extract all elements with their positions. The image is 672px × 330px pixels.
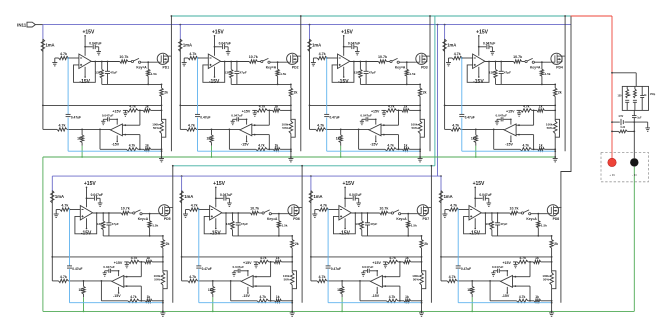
resistor R311 (1k) xyxy=(402,104,410,112)
transistor PD2 xyxy=(287,53,301,69)
svg-text:1mA: 1mA xyxy=(183,43,192,48)
svg-text:+15V: +15V xyxy=(84,181,96,187)
wire drain rail top 1 xyxy=(170,16,172,151)
svg-text:50%: 50% xyxy=(411,126,417,130)
power +15V U1A xyxy=(82,29,94,55)
svg-text:1k: 1k xyxy=(276,295,280,299)
resistor R81 (1mA) xyxy=(439,191,452,204)
svg-text:4.7k: 4.7k xyxy=(60,275,67,279)
resistor R52 (4.7k) xyxy=(60,203,70,211)
svg-text:+15V: +15V xyxy=(112,110,121,114)
svg-text:4.7k: 4.7k xyxy=(61,203,68,207)
svg-text:4.7k: 4.7k xyxy=(129,144,136,148)
svg-text:1.5k: 1.5k xyxy=(152,224,158,228)
switch J1 (Key=A) xyxy=(128,58,147,69)
transistor PD5 xyxy=(159,205,173,221)
capacitor C22 (47pF) xyxy=(234,62,246,85)
svg-text:-15V: -15V xyxy=(242,294,250,298)
resistor R64 (10.7k) xyxy=(250,207,259,215)
svg-text:1k: 1k xyxy=(207,137,211,141)
svg-text:2k: 2k xyxy=(294,91,298,95)
wire output U7B xyxy=(359,281,361,301)
node busA-R block 4 xyxy=(554,105,556,107)
wire output U6A xyxy=(222,212,251,214)
port IN1 xyxy=(17,22,43,27)
wire output red xyxy=(571,16,613,158)
wire rail block 7 xyxy=(310,191,312,281)
resistor R512 (4.7k) xyxy=(128,295,139,303)
resistor R66 (2k) xyxy=(291,236,299,257)
wire main signal bus top xyxy=(43,24,571,26)
wire bus84 block 4 xyxy=(496,84,557,86)
wire busC block 8 xyxy=(513,261,552,263)
ground input block 3 xyxy=(311,58,316,66)
wire chain2 block 8 xyxy=(551,289,553,313)
switch J8 (Key=A) xyxy=(518,210,537,221)
wire busA block 8 xyxy=(440,256,551,258)
svg-text:-15V: -15V xyxy=(112,143,120,147)
node busA-R block 5 xyxy=(162,256,164,258)
op-amp U8B xyxy=(501,276,517,288)
ground busC block 5 xyxy=(125,262,129,268)
resistor R69 (1k) xyxy=(208,281,215,297)
resistor R48 (4.7k) xyxy=(451,124,461,132)
load network box xyxy=(622,86,648,110)
svg-text:4.7k: 4.7k xyxy=(320,203,327,207)
capacitor C34 (0.47uF) xyxy=(324,114,339,119)
wire output U4B xyxy=(493,129,495,149)
svg-text:50%: 50% xyxy=(284,278,290,282)
op-amp U3A xyxy=(338,54,350,69)
wire rail block 8 xyxy=(440,191,442,281)
svg-text:Key=A: Key=A xyxy=(395,65,406,69)
capacitor C-mid (1uF) xyxy=(632,110,642,122)
ground chain block 2 xyxy=(288,159,293,162)
resistor R43 (13k) xyxy=(489,62,497,85)
wire busD block 2 xyxy=(229,148,291,150)
wire rail-blue block 6 xyxy=(181,176,183,191)
svg-text:2k: 2k xyxy=(164,91,168,95)
wire chain2 block 4 xyxy=(554,137,556,158)
wire load mid vert xyxy=(633,122,635,158)
svg-text:4.7k: 4.7k xyxy=(131,256,138,260)
svg-text:+15V: +15V xyxy=(114,261,123,265)
power -15V U6A xyxy=(210,218,221,236)
resistor R62 (4.7k) xyxy=(189,203,199,211)
op-amp U7B xyxy=(370,276,386,288)
capacitor C71 (0.047uF) xyxy=(344,193,361,206)
resistor R610 (4.7k) xyxy=(258,256,269,264)
power -15V U1A xyxy=(79,67,90,85)
node busA-R block 3 xyxy=(419,105,421,107)
wire chain block 6 xyxy=(291,257,293,262)
resistor R58 (4.7k) xyxy=(59,275,69,283)
svg-text:1mA: 1mA xyxy=(314,194,323,199)
resistor R89 (1k) xyxy=(467,281,474,297)
wire bus84 block 1 xyxy=(102,84,163,86)
wire output U3A xyxy=(350,61,379,63)
wire busB block 2 xyxy=(180,129,240,131)
wire output U1B xyxy=(99,129,101,149)
ground input block 7 xyxy=(312,210,317,218)
wire chain2 block 6 xyxy=(291,289,293,313)
resistor R24 (10.7k) xyxy=(249,55,258,63)
svg-text:1mA: 1mA xyxy=(447,43,456,48)
wire rail block 2 xyxy=(179,39,181,129)
svg-text:10.7k: 10.7k xyxy=(250,207,259,211)
svg-text:+15V: +15V xyxy=(341,29,353,35)
svg-text:50%: 50% xyxy=(413,278,419,282)
wire chain block 5 xyxy=(162,257,164,262)
power -15V U6B xyxy=(242,287,250,298)
resistor R713 (1k) xyxy=(404,295,411,303)
wire input block 1 xyxy=(55,57,79,59)
resistor R87 (100k rheostat) xyxy=(542,262,556,289)
svg-text:1k: 1k xyxy=(539,144,543,148)
op-amp U5A xyxy=(80,206,92,221)
wire output U6B xyxy=(230,281,232,301)
svg-text:50%: 50% xyxy=(547,126,553,130)
svg-text:4.7k: 4.7k xyxy=(449,275,456,279)
svg-text:1k: 1k xyxy=(405,256,409,260)
capacitor C61 (0.047uF) xyxy=(215,193,232,206)
wire bus84 block 2 xyxy=(231,84,292,86)
svg-text:10.7k: 10.7k xyxy=(121,207,130,211)
power +15V U5B xyxy=(114,261,123,276)
svg-text:4.7k: 4.7k xyxy=(452,124,459,128)
resistor R59 (1k) xyxy=(79,281,86,297)
wire feedback U3A xyxy=(332,61,355,83)
transistor PD1 xyxy=(157,53,171,69)
wire busC block 1 xyxy=(123,110,163,112)
ground chain block 7 xyxy=(419,313,424,316)
resistor R811 (1k) xyxy=(533,256,541,264)
resistor R26 (2k) xyxy=(289,84,297,105)
svg-text:PD2: PD2 xyxy=(292,66,299,70)
resistor R16 (2k) xyxy=(160,84,168,105)
transistor PD6 xyxy=(288,205,302,221)
wire blue riser xyxy=(437,25,439,177)
svg-text:4.7k: 4.7k xyxy=(522,144,529,148)
svg-text:13k: 13k xyxy=(97,222,102,226)
svg-text:4.7k: 4.7k xyxy=(519,256,526,260)
svg-text:Key=A: Key=A xyxy=(136,65,147,69)
op-amp U8A xyxy=(469,206,481,221)
svg-text:1k: 1k xyxy=(79,288,83,292)
wire net-blue block 1 xyxy=(68,57,161,151)
wire output U5A xyxy=(93,212,122,214)
power -15V U1B xyxy=(112,135,120,146)
wire busC block 6 xyxy=(254,261,294,263)
wire bus84 block 7 xyxy=(362,235,423,237)
power -15V U4A xyxy=(473,67,484,85)
svg-text:0.47uF: 0.47uF xyxy=(461,267,471,271)
svg-text:-15V: -15V xyxy=(113,294,121,298)
svg-text:0.47uF: 0.47uF xyxy=(71,115,81,119)
wire cyan riser xyxy=(434,16,436,166)
wire rail block 1 xyxy=(42,39,44,129)
wire gate block 1 xyxy=(141,61,158,63)
svg-text:4.7k: 4.7k xyxy=(319,52,326,56)
resistor R37 (100k rheostat) xyxy=(411,110,425,137)
wire ground bus bottom xyxy=(43,310,634,312)
wire row1 xyxy=(611,121,648,123)
svg-text:50%: 50% xyxy=(153,126,159,130)
resistor R611 (1k) xyxy=(274,256,282,264)
wire busA block 1 xyxy=(42,105,162,107)
wire input block 4 xyxy=(449,57,473,59)
wire gate block 7 xyxy=(401,213,418,215)
probe - (black) xyxy=(630,158,638,177)
resistor R86 (2k) xyxy=(550,236,558,257)
wire feedback U2B xyxy=(255,110,270,149)
resistor R210 (4.7k) xyxy=(257,104,268,112)
resistor R39 (1k) xyxy=(336,129,343,145)
svg-text:+15V: +15V xyxy=(212,29,224,35)
wire drain rail bottom 3 xyxy=(430,166,432,303)
capacitor C13 (0.047uF) xyxy=(101,113,117,124)
svg-text:Key=A: Key=A xyxy=(526,217,537,221)
node in5 xyxy=(69,209,71,211)
switch J3 (Key=A) xyxy=(387,58,406,69)
wire chain block 4 xyxy=(554,105,556,110)
power +15V U8B xyxy=(502,261,511,276)
svg-text:50%: 50% xyxy=(282,126,288,130)
wire feedback U7B xyxy=(385,262,400,301)
power -15V U5B xyxy=(113,287,121,298)
power -15V U2B xyxy=(241,135,249,146)
power -15V U7B xyxy=(372,287,380,298)
svg-text:1k: 1k xyxy=(275,144,279,148)
svg-text:0.47uF: 0.47uF xyxy=(465,115,475,119)
svg-text:PD5: PD5 xyxy=(164,217,171,221)
svg-text:1k: 1k xyxy=(471,137,475,141)
op-amp U1B xyxy=(110,124,126,136)
wire feedback U6B xyxy=(256,262,271,301)
resistor R11 (1mA) xyxy=(41,39,54,52)
svg-text:+15V: +15V xyxy=(371,110,380,114)
power -15V U2A xyxy=(209,67,220,85)
svg-text:13k: 13k xyxy=(225,70,230,74)
wire input block 8 xyxy=(445,209,469,211)
wire rail-blue block 1 xyxy=(42,25,44,40)
svg-text:1k: 1k xyxy=(77,137,81,141)
capacitor C12 (47pF) xyxy=(105,62,117,85)
svg-text:1.5k: 1.5k xyxy=(282,224,288,228)
resistor R76 (2k) xyxy=(420,236,428,257)
wire ground bus left xyxy=(42,157,44,311)
ground input block 6 xyxy=(183,210,188,218)
svg-text:4.7k: 4.7k xyxy=(130,295,137,299)
svg-text:Key=A: Key=A xyxy=(266,65,277,69)
resistor R612 (4.7k) xyxy=(257,295,268,303)
ground busC block 7 xyxy=(383,262,387,268)
node busA-R block 1 xyxy=(161,105,163,107)
svg-text:4.7k: 4.7k xyxy=(60,52,67,56)
svg-text:0.047uF: 0.047uF xyxy=(103,265,115,269)
svg-text:+ IN: + IN xyxy=(609,173,614,177)
wire busB block 7 xyxy=(311,280,371,282)
node in3 xyxy=(326,57,328,59)
wire main signal bus bottom xyxy=(52,175,442,177)
label load right xyxy=(650,93,656,96)
resistor RS (0.22) xyxy=(619,126,628,133)
wire drain rail bottom 2 xyxy=(301,166,303,303)
ground chain block 3 xyxy=(418,159,423,162)
wire input block 7 xyxy=(315,209,339,211)
wire busB block 5 xyxy=(52,280,112,282)
wire busD block 5 xyxy=(101,300,163,302)
ground busC block 4 xyxy=(517,110,521,116)
svg-text:1k: 1k xyxy=(276,256,280,260)
wire row2 xyxy=(611,131,635,133)
resistor RL1 (150) xyxy=(618,86,630,110)
power +15V U6A xyxy=(213,181,225,207)
node busA-R block 2 xyxy=(290,105,292,107)
svg-text:2k: 2k xyxy=(558,91,562,95)
wire feedback U3B xyxy=(384,110,399,149)
wire input block 3 xyxy=(313,57,337,59)
wire green-stub block 5 xyxy=(83,297,85,312)
svg-text:1k: 1k xyxy=(535,295,539,299)
transistor PD8 xyxy=(547,205,561,221)
wire busB block 6 xyxy=(182,280,242,282)
wire gate block 8 xyxy=(531,213,548,215)
switch J4 (Key=A) xyxy=(522,58,541,69)
svg-text:4.7k: 4.7k xyxy=(129,104,136,108)
svg-text:IN11: IN11 xyxy=(17,23,27,28)
svg-text:1k: 1k xyxy=(274,104,278,108)
wire output U8A xyxy=(481,212,510,214)
resistor R54 (10.7k) xyxy=(121,207,130,215)
svg-text:1.5k: 1.5k xyxy=(411,224,417,228)
wire chain2 block 5 xyxy=(162,289,164,313)
wire green-stub block 2 xyxy=(211,146,213,158)
svg-text:-15V: -15V xyxy=(505,143,513,147)
node busA-R block 8 xyxy=(551,256,553,258)
svg-text:0.47uF: 0.47uF xyxy=(202,267,212,271)
svg-text:4.5V: 4.5V xyxy=(618,115,623,118)
power +15V U1B xyxy=(112,110,121,125)
svg-text:50%: 50% xyxy=(543,278,549,282)
capacitor C32 (47pF) xyxy=(364,62,376,85)
svg-text:2k: 2k xyxy=(423,91,427,95)
resistor R46 (2k) xyxy=(554,84,562,105)
resistor R68 (4.7k) xyxy=(188,275,198,283)
svg-text:4.7k: 4.7k xyxy=(388,104,395,108)
svg-text:10.7k: 10.7k xyxy=(510,207,519,211)
svg-text:- IN: - IN xyxy=(632,173,637,177)
resistor R56 (2k) xyxy=(161,236,169,257)
resistor R23 (13k) xyxy=(225,62,233,85)
wire gate block 5 xyxy=(142,213,159,215)
resistor R49 (1k) xyxy=(471,129,478,145)
resistor R84 (10.7k) xyxy=(510,207,519,215)
capacitor C44 (0.47uF) xyxy=(459,114,474,119)
wire feedback U8A xyxy=(464,212,487,234)
svg-text:0.047uF: 0.047uF xyxy=(233,265,245,269)
wire busD block 1 xyxy=(100,148,162,150)
svg-text:1k: 1k xyxy=(145,104,149,108)
wire ground bus mid xyxy=(43,156,556,158)
wire drain bus top xyxy=(171,15,571,17)
svg-text:47pF: 47pF xyxy=(504,70,511,74)
wire busA block 2 xyxy=(179,105,290,107)
wire gate block 3 xyxy=(399,61,416,63)
wire busB block 8 xyxy=(441,280,501,282)
wire feedback U5A xyxy=(75,212,98,234)
capacitor C43 (0.047uF) xyxy=(495,113,511,124)
wire busA block 7 xyxy=(310,256,422,258)
power +15V U6B xyxy=(243,261,252,276)
svg-text:4.7k: 4.7k xyxy=(389,295,396,299)
node in4 xyxy=(461,57,463,59)
capacitor C74 (0.47uF) xyxy=(326,266,341,271)
svg-text:4.7k: 4.7k xyxy=(387,144,394,148)
resistor R83 (13k) xyxy=(485,213,493,236)
power +15V U2B xyxy=(242,110,251,125)
wire green-stub block 4 xyxy=(475,146,477,158)
op-amp U6B xyxy=(241,276,257,288)
wire chain2 block 2 xyxy=(290,137,292,158)
wire rail-blue block 4 xyxy=(444,25,446,40)
svg-text:47pF: 47pF xyxy=(500,222,507,226)
resistor R310 (4.7k) xyxy=(386,104,397,112)
wire rail-blue block 2 xyxy=(179,25,181,40)
wire rail block 3 xyxy=(309,39,311,129)
resistor RL2 (150) xyxy=(628,86,637,110)
resistor R42 (4.7k) xyxy=(452,52,462,60)
svg-text:13k: 13k xyxy=(226,222,231,226)
wire chain block 2 xyxy=(290,105,292,110)
svg-text:-15V: -15V xyxy=(241,143,249,147)
svg-text:4.7k: 4.7k xyxy=(259,295,266,299)
wire chain block 8 xyxy=(551,257,553,262)
wire busA block 6 xyxy=(181,256,293,258)
power -15V U3B xyxy=(370,135,378,146)
op-amp U7A xyxy=(339,206,351,221)
resistor R17 (100k rheostat) xyxy=(152,110,166,137)
svg-text:2k: 2k xyxy=(554,242,558,246)
svg-text:4.7k: 4.7k xyxy=(191,203,198,207)
svg-text:1k: 1k xyxy=(405,295,409,299)
resistor R27 (100k rheostat) xyxy=(282,110,296,137)
svg-text:PD1: PD1 xyxy=(162,66,169,70)
wire feedback U8B xyxy=(515,262,530,301)
svg-text:1k: 1k xyxy=(336,137,340,141)
capacitor C64 (0.47uF) xyxy=(196,266,211,271)
svg-text:1k: 1k xyxy=(147,295,151,299)
wire net-blue block 8 xyxy=(458,209,551,303)
switch J2 (Key=A) xyxy=(257,58,276,69)
svg-text:47pF: 47pF xyxy=(241,222,248,226)
wire ground bus right xyxy=(633,167,635,312)
svg-text:PD3: PD3 xyxy=(421,66,428,70)
resistor R78 (4.7k) xyxy=(317,275,327,283)
wire rail-blue block 8 xyxy=(440,176,442,191)
svg-text:150: 150 xyxy=(618,95,623,98)
wire busA block 5 xyxy=(51,256,163,258)
wire gate block 4 xyxy=(534,61,551,63)
svg-text:13k: 13k xyxy=(485,222,490,226)
wire gate block 6 xyxy=(271,213,288,215)
wire busB block 4 xyxy=(445,129,505,131)
svg-text:PD8: PD8 xyxy=(553,217,560,221)
node in7 xyxy=(327,209,329,211)
svg-text:47pF: 47pF xyxy=(369,70,376,74)
resistor R410 (4.7k) xyxy=(521,104,532,112)
svg-text:2k: 2k xyxy=(295,242,299,246)
